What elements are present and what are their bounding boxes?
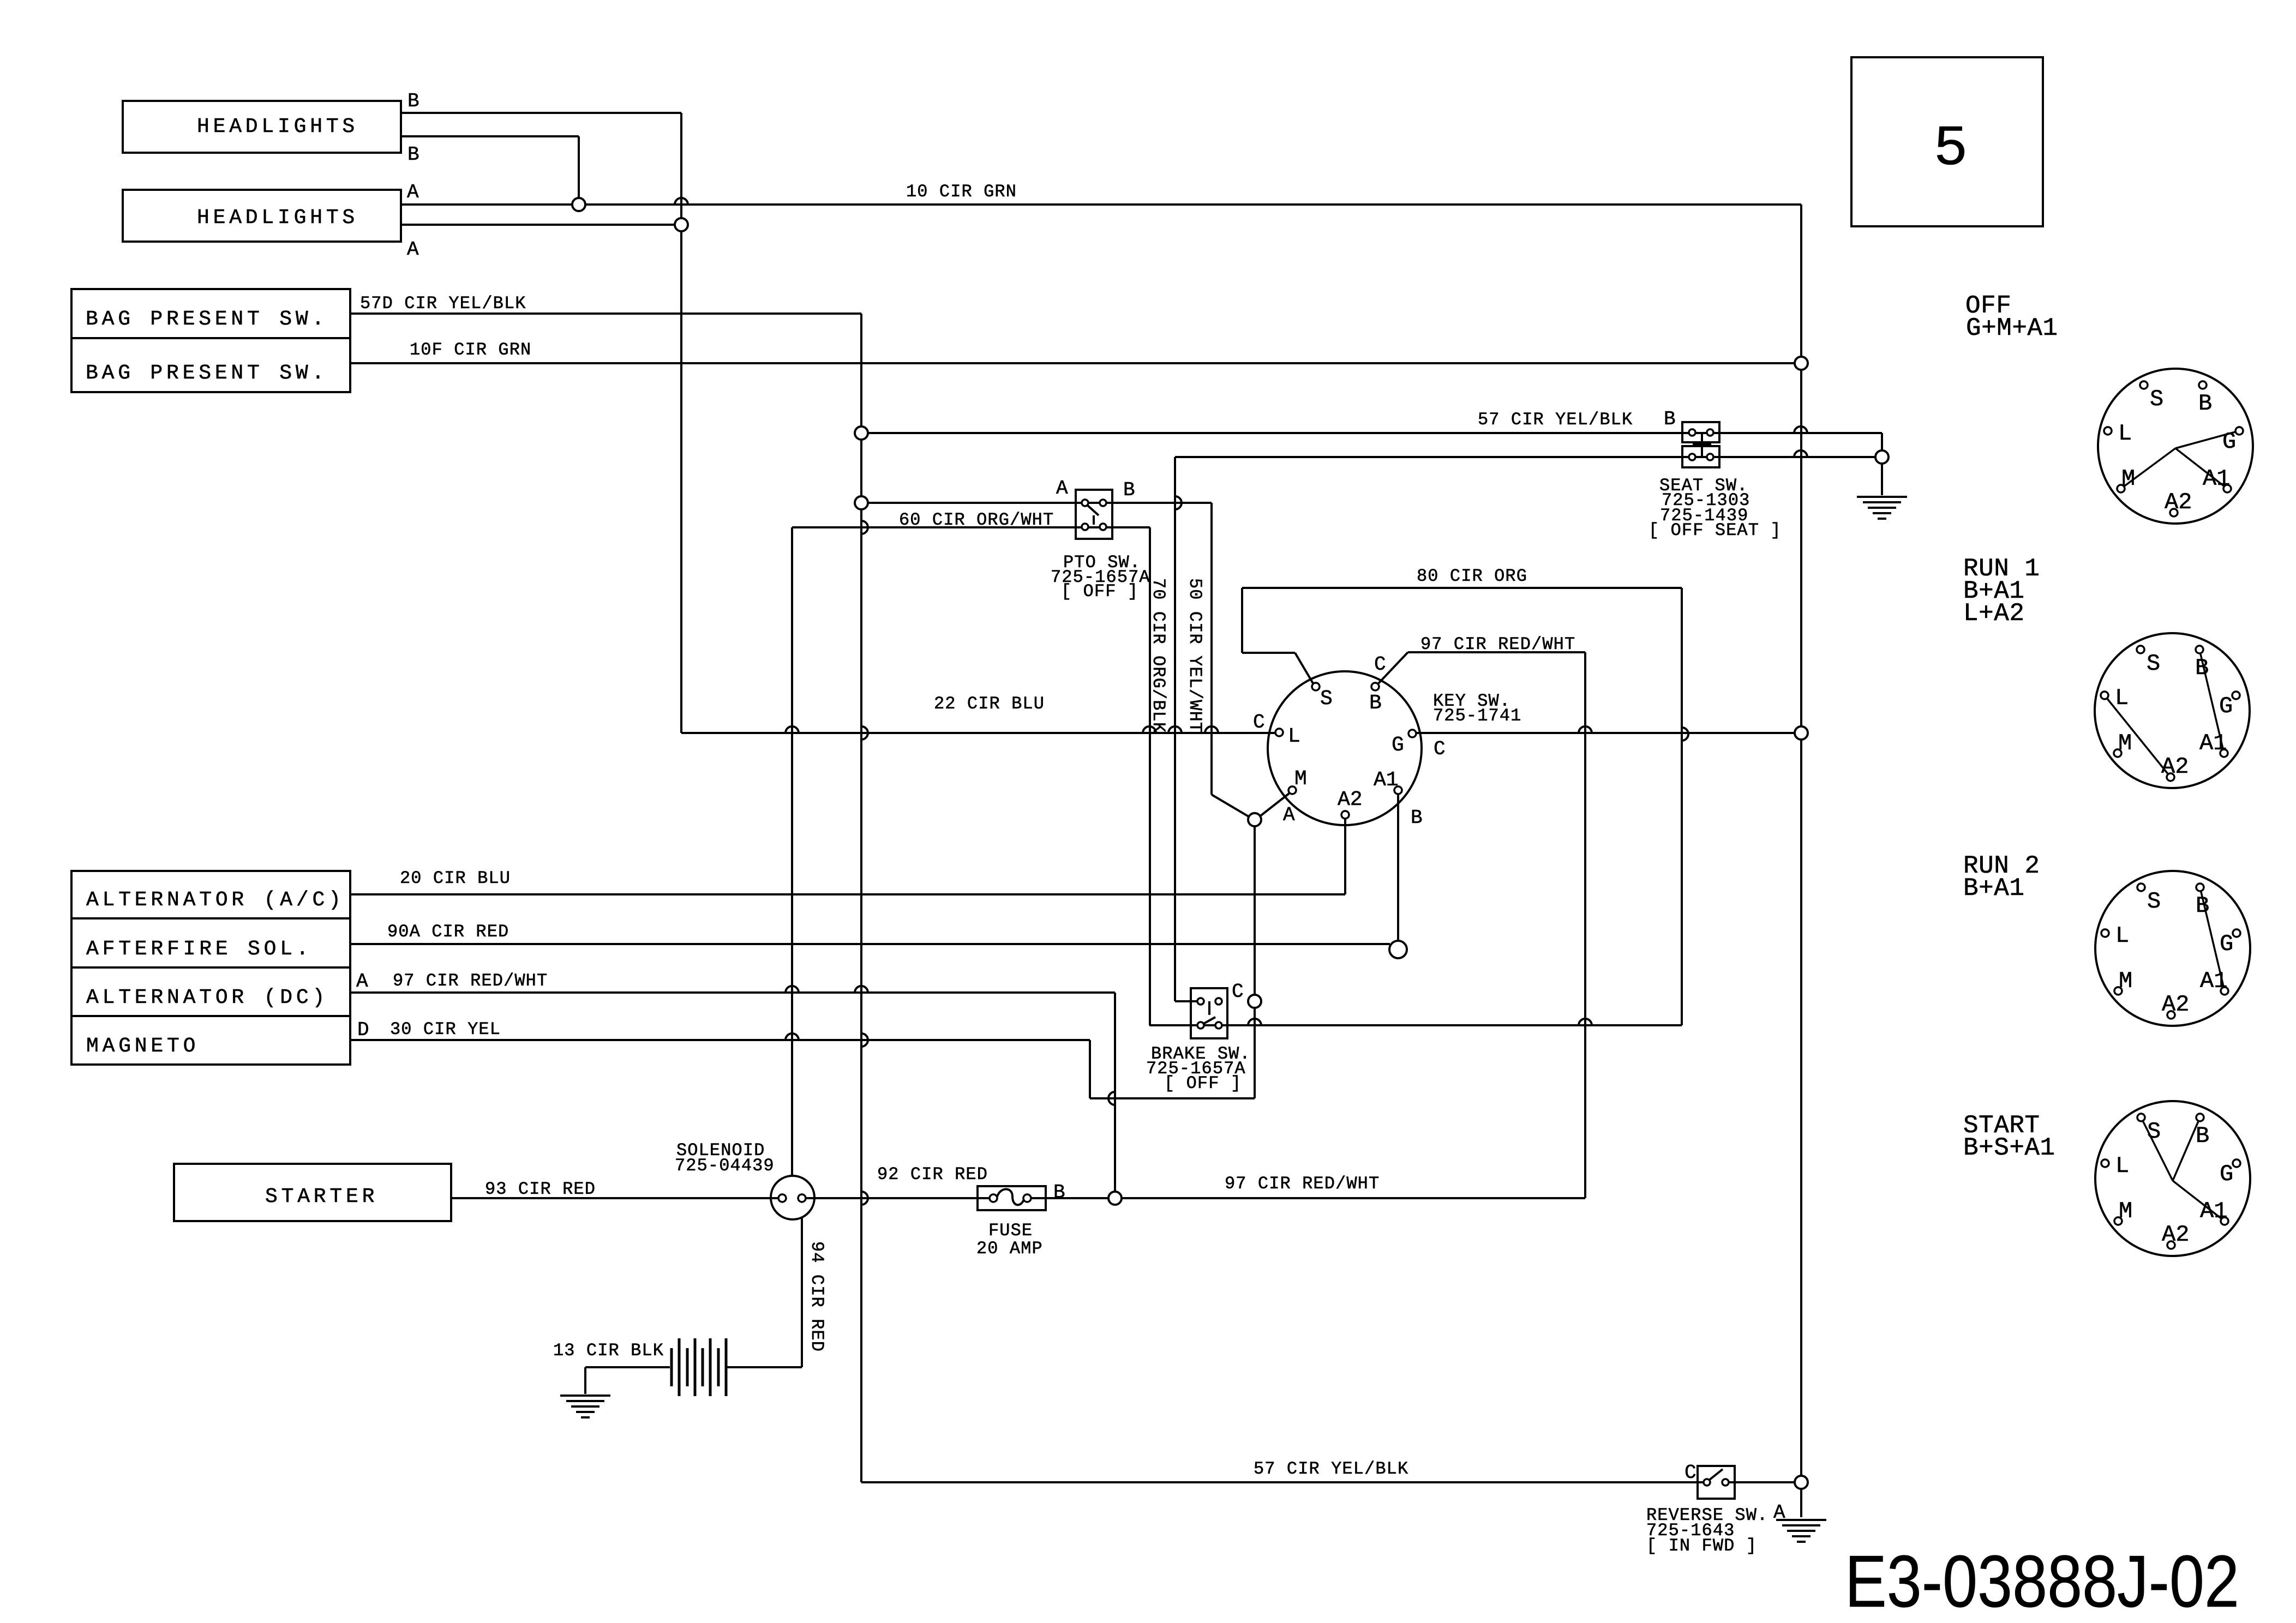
wire hop: 30 CIR YEL over x=1452 [786,1033,799,1040]
svg-text:G: G [2219,693,2233,719]
svg-text:S: S [2147,651,2160,677]
wire: KEY SW. terminal G to right vertical junction [1416,732,1795,734]
BRAKE SW. lever [1202,1017,1215,1025]
rotary diagram RUN 1: terminal A1 [2220,749,2228,757]
svg-text:HEADLIGHTS: HEADLIGHTS [197,115,358,139]
svg-text:B: B [1053,1181,1065,1204]
wire: drop from PTO lower wire to SOLENOID [791,527,793,1177]
SEAT SW. upper body (725-1303) [1682,422,1719,442]
wire hop: brake bottom wire over x=2906 [1579,1019,1592,1025]
rotary diagram START: terminal G [2233,1159,2240,1167]
wire: 20 CIR BLU from ALTERNATOR (A/C) to KEY SW. A2 [350,893,1345,895]
wire: PTO B diagonal to node A junction [1212,795,1250,817]
rotary diagram OFF: terminal A1 [2223,485,2231,492]
svg-text:L: L [2115,1153,2129,1179]
rotary diagram OFF: bezel [2098,369,2253,524]
wire: drop from PTO lower wire to BRAKE SW. bottom wire [1149,527,1151,1025]
svg-text:B: B [407,90,419,112]
wire: 13 CIR BLK from coil to ground [585,1366,670,1368]
rotary diagram RUN 1: terminal A2 [2167,773,2174,781]
ground symbol at reverse switch [1776,1519,1826,1521]
rotary diagram START: terminal A1 [2221,1217,2228,1225]
BRAKE SW. link [1208,1001,1210,1015]
svg-text:94 CIR RED: 94 CIR RED [807,1241,827,1352]
rotary diagram START: contact link center-A1 [2173,1181,2225,1221]
svg-text:L: L [2118,420,2132,447]
svg-text:C: C [1684,1462,1696,1484]
wire: 80 CIR ORG right drop to BRAKE SW. bottom wire [1681,588,1683,1025]
KEY SW. terminal B [1371,683,1379,690]
wire: 10F CIR GRN from BAG PRESENT SW. to junction on right vertical [350,362,1795,364]
solenoid terminal stub right [806,1197,814,1199]
svg-text:G: G [2220,1161,2233,1187]
rotary diagram START: terminal M [2114,1217,2122,1225]
component box: BAG PRESENT SW. (lower) [71,338,350,392]
SEAT SW. pin B (upper-left) [1689,429,1695,436]
svg-text:L+A2: L+A2 [1963,599,2024,628]
svg-text:57 CIR YEL/BLK: 57 CIR YEL/BLK [1478,410,1633,430]
wire: 57 CIR YEL/BLK to SEAT SW. and ground corner [868,432,1882,434]
wire: vertical from seat lower wire to BRAKE SW. terminal A [1174,457,1176,1001]
wire hop: 97 CIR RED/WHT over x=1452 [786,986,799,993]
svg-text:5: 5 [1933,117,1968,182]
wire: seat switch lower wire [1175,456,1875,458]
BRAKE SW. pin bottom-right [1215,1022,1222,1029]
wire: 22 CIR BLU to KEY SW. terminal L [681,732,1275,734]
svg-text:A2: A2 [1338,788,1363,812]
svg-text:A1: A1 [1374,768,1399,792]
svg-text:C: C [1434,738,1446,760]
svg-text:B: B [2196,1123,2209,1149]
wire: 10 CIR GRN net - headlights A to right-side vertical [401,203,1801,206]
wire: seat switch ground drop [1881,433,1883,450]
fuse element curve [997,1189,1024,1205]
PTO SW. body (725-1657A) [1076,490,1112,539]
svg-text:57D CIR YEL/BLK: 57D CIR YEL/BLK [360,293,526,314]
svg-text:A: A [1283,804,1295,826]
wire: PTO B drop [1210,503,1213,795]
rotary diagram RUN 2: terminal L [2101,929,2109,937]
junction: reverse switch ground node [1795,1476,1808,1489]
wire hop: 22 CIR BLU over x=2154 [1168,726,1182,733]
REVERSE SW. pin C (left) [1704,1479,1710,1486]
svg-text:B: B [1411,807,1423,829]
svg-text:97 CIR RED/WHT: 97 CIR RED/WHT [1420,634,1575,654]
rotary diagram OFF: terminal G [2235,427,2243,435]
rotary diagram START: terminal B [2196,1114,2204,1121]
svg-text:BAG PRESENT SW.: BAG PRESENT SW. [86,308,328,331]
junction: lower A wire on vertical bus [675,218,688,231]
svg-text:20 CIR BLU: 20 CIR BLU [400,868,511,888]
wire: 13 CIR BLK ground drop [584,1367,586,1394]
wire: 90A CIR RED from AFTERFIRE SOL. to connector [350,943,1390,945]
wire hop: 22 CIR BLU over x=2107 [1143,726,1156,733]
wire: 94 CIR RED bottom run to ignition coil [726,1366,802,1368]
svg-text:A: A [407,181,419,203]
component box: HEADLIGHTS (upper) [123,101,401,153]
svg-text:M: M [2118,730,2132,756]
svg-text:B+S+A1: B+S+A1 [1963,1134,2055,1162]
rotary diagram RUN 1: contact link B-A1 [2199,650,2224,753]
svg-text:B: B [407,143,419,166]
svg-text:13 CIR BLK: 13 CIR BLK [553,1341,664,1361]
wire hop: G wire over x=2906 [1579,726,1592,733]
svg-text:D: D [357,1019,369,1041]
wire hop: 97 (DC) drop over 30 CIR YEL jog [1108,1092,1115,1105]
rotary diagram START: terminal A2 [2167,1241,2175,1249]
svg-text:L: L [1288,725,1300,748]
svg-text:A: A [356,970,368,993]
junction: node A (PTO B / M / 30 CIR YEL) [1248,813,1261,826]
rotary diagram OFF: terminal M [2117,485,2125,492]
ground symbol at seat switch [1857,496,1907,498]
svg-text:M: M [2119,968,2132,994]
svg-text:22 CIR BLU: 22 CIR BLU [934,694,1045,714]
svg-text:STARTER: STARTER [265,1185,378,1209]
wire: 30 CIR YEL drop [1089,1040,1091,1098]
wire: 80 CIR ORG top run [1242,587,1682,589]
rotary diagram RUN 2: bezel [2095,871,2250,1026]
svg-text:10F CIR GRN: 10F CIR GRN [410,340,531,360]
junction: 90A CIR RED to A1 connector [1389,941,1407,958]
svg-text:S: S [2147,1119,2161,1145]
rotary diagram RUN 1: contact link L-A2 [2105,695,2171,777]
svg-text:M: M [1294,767,1307,791]
svg-text:S: S [1320,687,1333,711]
rotary diagram RUN 2: terminal M [2114,987,2122,995]
rotary diagram RUN 2: terminal B [2196,883,2204,891]
wire: STARTER 93 CIR RED to SOLENOID and FUSE [451,1197,990,1199]
solenoid terminal pin left [778,1194,786,1202]
wire hop: 57 CIR YEL/BLK over right vertical [1794,426,1807,433]
KEY SW. terminal M [1288,786,1296,794]
wire hop: vertical x=2154 over 60 CIR ORG/WHT [1175,496,1182,509]
SEAT SW. pin upper-right [1707,429,1713,436]
wire: 97 (DC) drop to bottom 97 junction [1114,993,1116,1192]
svg-text:[ OFF ]: [ OFF ] [1061,581,1138,602]
ground symbol at 13 CIR BLK [560,1394,610,1397]
wire: KEY SW. terminal A1 drop to connector [1397,794,1399,941]
KEY SW. terminal G [1408,730,1416,737]
REVERSE SW. body (725-1643) [1698,1466,1735,1499]
fuse body (20 AMP) [978,1186,1046,1210]
svg-text:FUSE: FUSE [988,1221,1033,1241]
BRAKE SW. pin top-right (C) [1215,998,1222,1005]
svg-text:AFTERFIRE SOL.: AFTERFIRE SOL. [86,937,312,961]
PTO SW. lever [1088,506,1099,515]
divider ALTERNATOR (DC) / MAGNETO [71,1015,350,1017]
wire: 57 YEL/BLK vertical bus [860,314,862,1482]
rotary diagram RUN 2: terminal G [2233,929,2240,937]
junction: BRAKE SW. C node [1248,995,1261,1008]
BRAKE SW. body (725-1657A) [1191,988,1227,1038]
svg-text:A2: A2 [2162,1222,2189,1248]
rotary diagram RUN 1: terminal G [2232,692,2240,699]
svg-text:A: A [407,238,419,261]
solenoid terminal pin right [798,1194,806,1202]
wire hop: 97 CIR RED/WHT over 57 bus [855,986,868,993]
rotary diagram RUN 1: terminal S [2137,646,2144,653]
SEAT SW. link [1701,434,1703,456]
rotary diagram RUN 2: terminal A1 [2221,987,2228,995]
wire: into BRAKE SW. top-left terminal [1175,1000,1200,1002]
svg-text:G: G [2220,931,2233,957]
wire: headlights A (lower) to junction on vertical bus [401,224,675,226]
wire hop: brake bottom wire over M riser [1248,1019,1261,1025]
component box: BAG PRESENT SW. (upper) [71,289,350,338]
svg-text:B: B [1123,479,1135,501]
svg-text:L: L [2115,923,2129,949]
svg-text:[ OFF SEAT ]: [ OFF SEAT ] [1648,520,1782,540]
SEAT SW. lower body (725-1439) [1682,446,1719,467]
svg-text:30 CIR YEL: 30 CIR YEL [390,1019,501,1039]
wire hop: 22 CIR BLU over x=2221 [1205,726,1218,733]
wire: 60 CIR ORG/WHT junction to PTO SW. terminal A/B [868,502,1212,504]
svg-text:60 CIR ORG/WHT: 60 CIR ORG/WHT [899,510,1054,530]
wire: riser from 30 CIR YEL to KEY SW. terminal M node [1254,826,1256,1098]
wire hop: 57 bus over 92 CIR RED [861,1192,868,1205]
rotary diagram OFF: contact link center-A1 [2175,448,2227,489]
KEY SW. terminal S [1312,683,1320,690]
component box: STARTER [174,1164,451,1221]
svg-text:50 CIR YEL/WHT: 50 CIR YEL/WHT [1185,578,1205,733]
svg-text:A2: A2 [2165,489,2192,515]
svg-text:A2: A2 [2162,991,2189,1018]
wire: headlights B (upper) to vertical bus [401,112,681,114]
svg-text:S: S [2147,888,2161,915]
rotary diagram RUN 1: terminal B [2196,646,2203,653]
rotary diagram RUN 1: terminal L [2101,692,2108,699]
junction: 57 CIR YEL/BLK tap [855,426,868,440]
wire: PTO lower contact wire [792,526,1150,528]
BRAKE SW. pin bottom-left [1197,1022,1204,1029]
rotary diagram START: terminal L [2101,1159,2109,1167]
wire: seat ground below junction [1881,464,1883,495]
wire: 97 CIR RED/WHT bottom run from FUSE [1031,1197,1585,1199]
junction: G wire on right vertical [1795,726,1808,740]
rotary diagram RUN 2: contact link B-A1 [2200,887,2225,991]
wire hop: 80 CIR ORG drop over G wire [1682,728,1688,741]
rotary diagram RUN 2: terminal S [2137,883,2145,891]
rotary diagram OFF: terminal B [2199,381,2207,389]
wire hop: 57 bus over 22 CIR BLU [861,726,868,740]
svg-text:B+A1: B+A1 [1963,874,2024,903]
svg-text:B: B [2198,390,2212,417]
rotary diagram RUN 1: bezel [2095,633,2250,788]
svg-text:[ IN FWD ]: [ IN FWD ] [1646,1536,1757,1556]
svg-text:C: C [1374,653,1386,676]
wire: riser to KEY SW. terminal A2 [1344,819,1346,894]
svg-text:90A CIR RED: 90A CIR RED [387,922,509,942]
rotary diagram START: bezel [2095,1101,2250,1256]
junction: lower B wire on 10 CIR GRN [572,198,585,211]
svg-text:A1: A1 [2199,730,2227,756]
svg-text:A2: A2 [2161,754,2189,780]
PTO SW. pin B (top-right) [1100,500,1106,506]
wire: 97 CIR RED/WHT run from B [1408,651,1585,653]
svg-text:G+M+A1: G+M+A1 [1966,314,2058,342]
KEY SW. terminal L [1275,729,1283,736]
PTO SW. pin bottom-left [1082,524,1088,530]
svg-text:A1: A1 [2200,968,2227,994]
wire: 97 CIR RED/WHT drop to bottom run [1584,652,1586,1198]
KEY SW. terminal A1 [1394,786,1402,794]
rotary diagram OFF: contact link center-G [2175,431,2239,448]
svg-text:G: G [1392,734,1404,757]
wire hop: 57 bus over 30 CIR YEL [861,1033,868,1047]
rotary diagram OFF: terminal A2 [2170,509,2178,516]
BRAKE SW. pin top-left [1197,998,1204,1005]
wire: vertical bus from headlights B down to 22 CIR BLU corner [680,113,682,733]
wire: drop from lower B wire to junction on 10 CIR GRN [578,136,580,199]
wire hop: 10 CIR GRN over vertical bus x=1249 [675,198,688,205]
SEAT SW. pin lower-left [1689,454,1695,460]
svg-text:G: G [2222,429,2236,455]
wire: 30 CIR YEL from MAGNETO [350,1039,1090,1041]
svg-text:L: L [2115,685,2129,711]
rotary diagram RUN 1: terminal M [2114,749,2121,757]
wire: right-side vertical net (10 CIR GRN ground bus) [1800,205,1802,1517]
svg-text:B: B [2196,893,2209,919]
PTO SW. pin bottom-right [1100,524,1106,530]
fuse pin left [990,1194,997,1202]
svg-text:M: M [2121,466,2135,492]
svg-text:M: M [2119,1198,2132,1224]
solenoid terminal stub left [771,1197,779,1199]
svg-text:B: B [2195,655,2209,681]
junction: 60 CIR ORG/WHT tap [855,496,868,509]
divider ALTERNATOR (A/C) / AFTERFIRE SOL. [71,917,350,919]
REVERSE SW. lever [1709,1469,1723,1480]
rotary diagram RUN 2: terminal A2 [2167,1011,2175,1019]
component box stack: ALTERNATOR (A/C) / AFTERFIRE SOL. / ALTERNATOR (DC) / MAGNETO [71,871,350,1065]
sheet number box (5) [1851,57,2043,226]
junction: seat ground node [1875,450,1889,464]
REVERSE SW. pin A (right) [1722,1479,1729,1486]
svg-text:[ OFF ]: [ OFF ] [1164,1073,1242,1093]
svg-text:57 CIR YEL/BLK: 57 CIR YEL/BLK [1254,1459,1408,1479]
svg-text:92 CIR RED: 92 CIR RED [877,1164,988,1185]
KEY SW. terminal A2 [1341,811,1349,819]
wire: 80 CIR ORG left riser [1241,588,1243,653]
wire: SOLENOID coil drop (94 CIR RED) [801,1201,803,1367]
svg-text:725-04439: 725-04439 [675,1156,775,1176]
wire: 80 CIR ORG diagonal from KEY SW. terminal S [1295,653,1313,683]
wire: 80 CIR ORG upper-left run [1242,652,1295,654]
wire: 57D CIR YEL/BLK from BAG PRESENT SW. [350,312,861,315]
svg-text:C: C [1253,711,1265,734]
svg-text:97 CIR RED/WHT: 97 CIR RED/WHT [1225,1174,1380,1194]
wire: headlights B (lower) [401,135,579,137]
wire hop: 57 bus over PTO lower wire [861,521,868,534]
wire hop: 22 CIR BLU over x=1452 [786,726,799,733]
wire: BRAKE SW. bottom wire [1149,1024,1682,1026]
svg-text:B: B [1664,408,1676,430]
svg-text:A1: A1 [2200,1198,2227,1224]
divider AFTERFIRE SOL. / ALTERNATOR (DC) [71,966,350,969]
rotary diagram OFF: terminal S [2140,381,2148,389]
wire: 57 CIR YEL/BLK bottom run to REVERSE SW. [861,1481,1704,1483]
svg-text:S: S [2150,386,2163,412]
svg-text:20 AMP: 20 AMP [976,1239,1043,1259]
svg-text:BAG PRESENT SW.: BAG PRESENT SW. [86,362,328,385]
ignition coil / battery bars (13 CIR BLK) [670,1348,673,1386]
solenoid body (725-04439) [771,1176,814,1219]
rotary diagram START: contact link center-S [2141,1117,2173,1181]
wire: KEY SW. M terminal diagonal to node A junction [1259,794,1289,817]
PTO SW. pin A (top-left) [1082,500,1088,506]
rotary diagram START: contact link center-B [2173,1117,2200,1181]
svg-text:A1: A1 [2203,466,2230,492]
rotary diagram START: terminal S [2137,1114,2145,1121]
KEY SW. body (725-1741) [1268,671,1422,825]
wire: 30 CIR YEL bottom run to M riser [1090,1097,1255,1099]
svg-text:97 CIR RED/WHT: 97 CIR RED/WHT [393,971,548,991]
wire hop: seat lower wire over right vertical [1794,450,1807,457]
svg-text:ALTERNATOR (DC): ALTERNATOR (DC) [86,986,328,1009]
svg-text:A: A [1773,1501,1785,1524]
svg-text:725-1741: 725-1741 [1433,706,1521,726]
svg-text:70 CIR ORG/BLK: 70 CIR ORG/BLK [1148,578,1168,733]
svg-text:A: A [1056,477,1068,500]
rotary diagram OFF: contact link center-M [2121,448,2175,489]
wire: 97 CIR RED/WHT diagonal from KEY SW. terminal B [1378,652,1408,683]
SEAT SW. pin lower-right [1707,454,1713,460]
svg-text:HEADLIGHTS: HEADLIGHTS [197,206,358,230]
fuse pin right [1023,1194,1031,1202]
svg-text:C: C [1232,981,1244,1003]
svg-text:E3-03888J-02: E3-03888J-02 [1845,1540,2239,1622]
rotary diagram OFF: terminal L [2104,427,2112,435]
svg-text:93 CIR RED: 93 CIR RED [485,1179,596,1199]
junction: 97 CIR RED/WHT bottom node [1108,1192,1122,1205]
junction: 10F CIR GRN on right vertical [1795,357,1808,370]
component box: HEADLIGHTS (lower) [123,190,401,242]
svg-text:ALTERNATOR (A/C): ALTERNATOR (A/C) [86,888,345,912]
svg-text:10 CIR GRN: 10 CIR GRN [906,182,1017,202]
svg-text:80 CIR ORG: 80 CIR ORG [1417,566,1527,586]
svg-text:B: B [1369,692,1382,715]
svg-text:MAGNETO: MAGNETO [86,1035,199,1058]
wire: 97 CIR RED/WHT from ALTERNATOR (DC) [350,991,1115,994]
wire: REVERSE SW. to ground junction [1729,1481,1795,1483]
